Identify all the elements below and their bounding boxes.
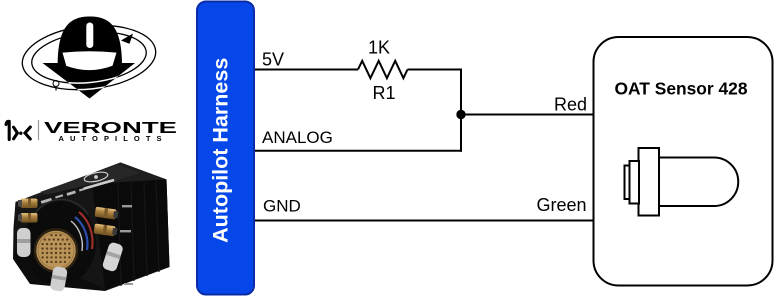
device silhouette bbox=[13, 163, 170, 292]
white fitting left bbox=[17, 228, 31, 257]
OAT sensor 428 enclosure bbox=[594, 37, 773, 286]
swoosh white over arrow bbox=[19, 19, 159, 96]
svg-text:GND: GND bbox=[263, 196, 301, 215]
device top face bbox=[16, 163, 167, 203]
registered mark bbox=[53, 81, 59, 87]
divider line bbox=[38, 120, 40, 140]
device right face bbox=[92, 180, 170, 290]
white fitting bottom-right bbox=[102, 241, 124, 272]
swoosh inner ellipse bbox=[29, 27, 149, 89]
svg-text:ANALOG: ANALOG bbox=[262, 128, 333, 147]
helmet dome bbox=[58, 17, 122, 67]
svg-text:OAT Sensor 428: OAT Sensor 428 bbox=[614, 79, 747, 99]
connector gold face bbox=[35, 230, 77, 272]
mark dot bbox=[19, 132, 22, 135]
device top print logo bbox=[83, 170, 108, 183]
sensor probe tip bbox=[625, 166, 630, 200]
wire GND: harness to OAT sensor (Green) bbox=[254, 220, 594, 222]
node junction dot bbox=[456, 110, 465, 119]
device front face bbox=[14, 184, 105, 289]
white fitting bottom-centre bbox=[50, 266, 68, 292]
wire 5V: harness to resistor R1 bbox=[254, 69, 358, 71]
resistor R1 zigzag bbox=[358, 61, 408, 78]
svg-text:Autopilot Harness: Autopilot Harness bbox=[209, 58, 233, 243]
sensor probe flange bbox=[639, 148, 660, 216]
right face rib lines bbox=[118, 181, 159, 287]
barrel stripe red bbox=[79, 212, 93, 249]
helmet top slot bbox=[86, 23, 93, 49]
helmet visor bowl bbox=[63, 51, 117, 70]
connector face inner ring bbox=[38, 233, 74, 269]
device front text row bbox=[30, 188, 84, 207]
barrel ring highlight bbox=[30, 199, 88, 222]
right connector lower gold bbox=[94, 224, 118, 237]
wire: vertical segment joining 5V and ANALOG lines bbox=[460, 69, 462, 152]
svg-text:1K: 1K bbox=[368, 37, 390, 57]
svg-text:5V: 5V bbox=[262, 50, 284, 70]
mark stroke 1 bbox=[6, 121, 9, 139]
wire: resistor R1 to corner bbox=[408, 69, 463, 71]
left connector lower gold bbox=[18, 213, 38, 223]
device top print wordmark bbox=[83, 179, 114, 190]
svg-text:Red: Red bbox=[554, 95, 587, 115]
svg-text:Green: Green bbox=[536, 195, 586, 215]
svg-text:R1: R1 bbox=[372, 83, 395, 103]
swoosh arrowhead bbox=[121, 34, 133, 44]
wire ANALOG: harness to vertical segment bbox=[254, 150, 462, 152]
right connector upper gold bbox=[95, 207, 119, 220]
sensor probe body capsule bbox=[659, 157, 738, 206]
wire Red: node to OAT sensor bbox=[461, 114, 594, 116]
main circular connector barrel bbox=[24, 201, 96, 285]
barrel stripe white bbox=[71, 221, 82, 251]
swoosh outer ellipse bbox=[19, 19, 159, 96]
sensor probe mid collar bbox=[630, 161, 640, 204]
left connector upper gold bbox=[18, 199, 38, 209]
barrel stripe blue bbox=[75, 217, 87, 250]
right face tiny labels bbox=[120, 205, 133, 285]
top face sheen bbox=[40, 165, 140, 200]
mark chevron left bbox=[25, 127, 30, 139]
autopilot harness connector bar bbox=[197, 2, 254, 295]
mark chevron right bbox=[14, 127, 18, 139]
connector pins bbox=[41, 234, 70, 263]
arrow bbox=[43, 63, 136, 99]
